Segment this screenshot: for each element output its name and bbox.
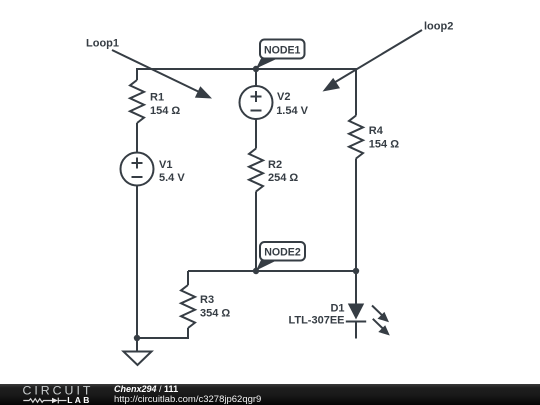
resistor R4 [349,116,363,159]
wire V2 top lead [255,69,257,86]
svg-text:LAB: LAB [67,395,91,405]
svg-text:R1: R1 [150,92,164,104]
footer meta text [114,385,261,404]
wire NODE2 rail [188,270,356,272]
junction dot ground rail [134,335,140,341]
svg-text:254 Ω: 254 Ω [268,172,298,184]
resistor R2 [249,149,263,192]
svg-text:LTL-307EE: LTL-307EE [288,315,344,327]
svg-text:354 Ω: 354 Ω [200,308,230,320]
loop1 annotation arrow [112,50,212,99]
svg-text:NODE1: NODE1 [264,45,301,57]
svg-text:154 Ω: 154 Ω [369,139,399,151]
LED light arrow 1 [372,306,389,323]
wire V2 to R2 [255,119,257,149]
wire D1 top lead [355,271,357,304]
svg-text:5.4 V: 5.4 V [159,172,185,184]
svg-text:loop2: loop2 [424,21,453,33]
svg-text:D1: D1 [330,303,344,315]
wire R1 to V1 [136,123,138,153]
ground [124,352,152,366]
svg-text:NODE2: NODE2 [264,246,301,258]
wire D1 bottom lead [355,322,357,339]
resistor R1 [130,80,144,123]
wire R3 top lead [187,271,189,285]
svg-text:R3: R3 [200,294,214,306]
wire R3 bottom to ground rail [137,328,188,338]
node NODE2 flag [256,242,305,271]
resistor R3 [181,285,195,328]
wire R4 bottom lead [355,159,357,272]
svg-text:V2: V2 [277,91,290,103]
wire top-left lead [136,69,138,80]
wire top rail [136,68,357,70]
LED light arrow 2 [373,319,390,336]
svg-text:Loop1: Loop1 [86,38,119,50]
svg-text:1.54 V: 1.54 V [276,105,308,117]
svg-text:R4: R4 [369,125,384,137]
svg-text:154 Ω: 154 Ω [150,105,180,117]
wire R2 to NODE2 [255,192,257,272]
node A junction dot top [253,66,259,72]
node NODE2 junction dot [253,268,259,274]
wire V1 to bottom [136,186,138,352]
CircuitLab logo [22,384,117,405]
voltage source V1 [121,153,154,186]
junction dot right NODE2 [353,268,359,274]
svg-text:R2: R2 [268,159,282,171]
loop2 annotation arrow [323,30,423,92]
svg-text:V1: V1 [159,159,172,171]
footer bar [0,384,540,405]
voltage source V2 [240,86,273,119]
wire right top lead [355,68,357,116]
diode D1 (LED) [346,304,366,322]
node NODE1 flag [256,40,305,69]
